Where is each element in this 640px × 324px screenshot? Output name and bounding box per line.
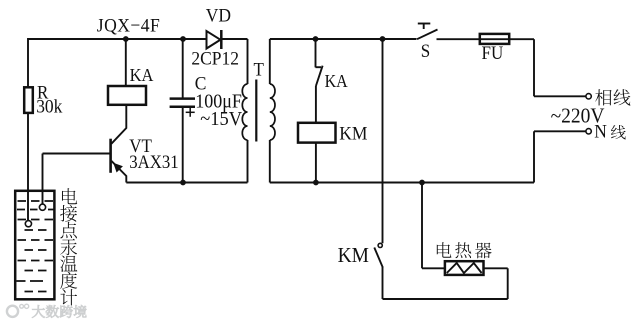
- svg-text:FU: FU: [482, 42, 504, 63]
- svg-text:KA: KA: [130, 66, 154, 86]
- svg-text:KA: KA: [325, 72, 348, 92]
- svg-text:KM: KM: [339, 123, 367, 144]
- svg-text:N: N: [594, 121, 607, 142]
- svg-text:3AX31: 3AX31: [129, 151, 178, 172]
- svg-text:2CP12: 2CP12: [191, 48, 239, 69]
- svg-text:JQX−4F: JQX−4F: [97, 16, 160, 37]
- svg-text:KM: KM: [338, 244, 369, 267]
- svg-text:30k: 30k: [36, 96, 63, 117]
- svg-text:VD: VD: [206, 5, 231, 26]
- svg-text:S: S: [421, 40, 430, 61]
- svg-text:~15V: ~15V: [200, 108, 242, 130]
- svg-text:T: T: [254, 59, 264, 80]
